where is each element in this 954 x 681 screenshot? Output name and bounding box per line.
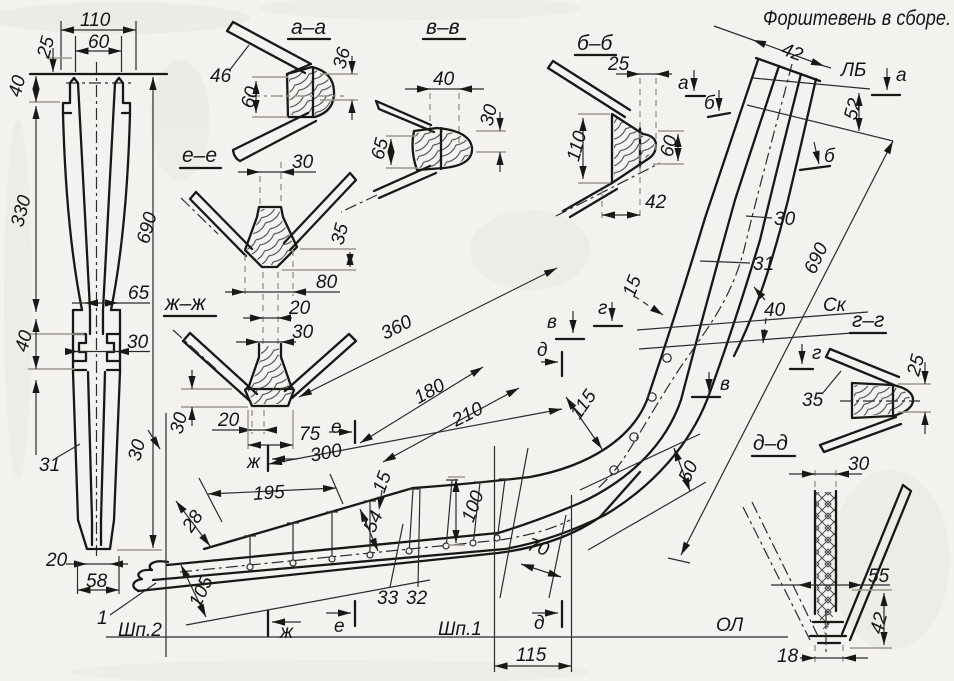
upper plank v-v bbox=[376, 101, 434, 132]
front view dimensions bbox=[5, 10, 163, 641]
svg-text:а–а: а–а bbox=[291, 16, 326, 39]
section g-g bbox=[790, 309, 931, 452]
svg-text:30: 30 bbox=[166, 410, 192, 436]
frame 2 bbox=[287, 523, 299, 566]
top deck line bbox=[30, 73, 167, 75]
dim 60 b-b bbox=[653, 131, 684, 164]
dim 30 joint bbox=[66, 351, 150, 353]
svg-text:690: 690 bbox=[133, 210, 162, 246]
svg-text:30: 30 bbox=[774, 209, 796, 230]
dim 360 bbox=[299, 268, 557, 397]
upper plank g-g bbox=[826, 349, 899, 385]
right plank e-e bbox=[284, 173, 356, 250]
lower plank v-v bbox=[374, 166, 436, 198]
dim 65 bbox=[72, 302, 150, 304]
svg-text:115: 115 bbox=[566, 386, 601, 423]
core a-a bbox=[287, 67, 334, 117]
svg-text:30: 30 bbox=[292, 322, 314, 343]
lower edge planks bbox=[563, 183, 617, 217]
right prong bbox=[111, 78, 130, 310]
svg-text:42: 42 bbox=[778, 39, 805, 66]
plank b-b bbox=[548, 61, 630, 117]
upper plank a-a bbox=[227, 22, 311, 74]
svg-text:18: 18 bbox=[777, 646, 799, 667]
svg-text:д–д: д–д bbox=[753, 432, 788, 455]
LB waterline bbox=[753, 78, 870, 89]
svg-text:195: 195 bbox=[252, 482, 286, 505]
svg-text:ж–ж: ж–ж bbox=[164, 292, 207, 315]
frame 5 bbox=[406, 489, 419, 554]
svg-text:20: 20 bbox=[45, 550, 68, 571]
dim 300 bbox=[269, 409, 562, 464]
dim 30 left bbox=[181, 389, 248, 407]
svg-text:105: 105 bbox=[185, 573, 218, 611]
svg-text:в–в: в–в bbox=[426, 16, 460, 39]
stem line L1 inner/frames-top bbox=[204, 60, 758, 549]
frame 6 bbox=[443, 480, 458, 549]
dim 115 bottom bbox=[495, 665, 572, 667]
frame 3 bbox=[326, 512, 338, 562]
dim 18 bbox=[815, 645, 843, 662]
svg-text:110: 110 bbox=[80, 10, 111, 31]
dim 30 v-v bbox=[476, 131, 506, 152]
dim 42 top bbox=[714, 26, 831, 68]
ext below bbox=[35, 380, 37, 455]
dim 80 bbox=[245, 250, 293, 296]
svg-text:35: 35 bbox=[327, 221, 353, 247]
lower plank a-a bbox=[233, 113, 316, 161]
front view stem post bbox=[30, 62, 167, 556]
core g-g bbox=[852, 383, 913, 418]
dim 690 slanted bbox=[681, 141, 893, 555]
bolt circles bbox=[610, 466, 618, 474]
svg-text:Шп.2: Шп.2 bbox=[118, 620, 162, 641]
svg-text:20: 20 bbox=[217, 410, 240, 431]
svg-text:65: 65 bbox=[367, 136, 393, 162]
svg-text:е: е bbox=[331, 417, 342, 438]
svg-text:690: 690 bbox=[800, 239, 833, 277]
lower post bbox=[73, 372, 120, 549]
centerline bbox=[96, 62, 98, 556]
dim 25 b-b bbox=[640, 78, 656, 219]
svg-text:80: 80 bbox=[316, 272, 338, 293]
svg-text:15: 15 bbox=[369, 468, 396, 495]
dim 110 bbox=[61, 21, 136, 70]
svg-text:Форштевень в сборе.: Форштевень в сборе. bbox=[763, 7, 951, 30]
frame 1 bbox=[244, 536, 256, 570]
second vertical bbox=[571, 495, 573, 672]
left plank e-e bbox=[190, 192, 252, 256]
dim 60 bbox=[76, 36, 122, 72]
main side view: stem assembly bbox=[133, 58, 820, 591]
left plank dashdot bbox=[743, 502, 818, 640]
line under LB bbox=[747, 105, 893, 141]
svg-text:40: 40 bbox=[5, 73, 31, 99]
svg-text:52: 52 bbox=[840, 96, 866, 122]
svg-text:б–б: б–б bbox=[577, 32, 613, 55]
dim 30 left2 bbox=[148, 430, 160, 449]
centerline g-g bbox=[840, 400, 920, 402]
svg-text:31: 31 bbox=[753, 254, 774, 275]
frame 7 bbox=[470, 482, 486, 546]
dim 58 bbox=[78, 556, 120, 594]
bottom tip bbox=[810, 622, 846, 643]
core e-e bbox=[245, 207, 297, 267]
svg-text:ж: ж bbox=[246, 452, 261, 473]
svg-text:б: б bbox=[824, 146, 836, 167]
svg-text:д: д bbox=[534, 613, 545, 634]
top cut bbox=[756, 58, 820, 81]
core v-v bbox=[413, 128, 472, 170]
keel outer bottom bbox=[138, 472, 640, 591]
svg-text:а: а bbox=[678, 73, 689, 94]
dim 100 bbox=[448, 477, 465, 545]
dim 40 top bbox=[29, 101, 60, 103]
dim 54 bbox=[360, 509, 378, 551]
dim 110 b-b bbox=[578, 114, 610, 183]
svg-text:30: 30 bbox=[476, 102, 502, 128]
svg-text:75: 75 bbox=[299, 424, 321, 445]
dim 195 bbox=[208, 488, 336, 494]
stem line L3 keel-plank-mid bbox=[153, 74, 801, 580]
svg-text:Ск: Ск bbox=[823, 295, 847, 316]
dim 60 a-a bbox=[252, 77, 288, 117]
dim 65 v-v bbox=[386, 136, 418, 168]
joint hooks bbox=[74, 334, 86, 370]
svg-text:60: 60 bbox=[237, 84, 263, 110]
dim 36 bbox=[320, 74, 358, 100]
section v-v bbox=[341, 16, 506, 212]
svg-text:30: 30 bbox=[292, 152, 314, 173]
dim 42 b-b bbox=[601, 190, 603, 219]
keel centerline bbox=[180, 520, 570, 572]
svg-text:г–г: г–г bbox=[852, 309, 884, 332]
trace pair 50 bbox=[580, 434, 706, 550]
stem line L2 keel-plank-top bbox=[167, 66, 779, 565]
svg-text:30: 30 bbox=[127, 332, 149, 353]
right plank bbox=[842, 485, 911, 640]
dim 42 d-d bbox=[850, 590, 892, 648]
svg-text:е–е: е–е bbox=[182, 144, 217, 167]
dim 25 g-g bbox=[898, 384, 931, 412]
svg-text:ж: ж bbox=[279, 622, 294, 643]
svg-text:40: 40 bbox=[433, 69, 455, 90]
svg-text:б: б bbox=[704, 93, 716, 114]
dim 30 e-e bbox=[260, 162, 281, 205]
svg-text:е: е bbox=[334, 616, 345, 637]
dim 20 top bbox=[263, 272, 278, 344]
svg-text:60: 60 bbox=[88, 32, 110, 53]
dim 20 bottom bbox=[66, 563, 128, 565]
svg-text:20: 20 bbox=[288, 298, 311, 319]
scarf joint shoulders bbox=[73, 310, 120, 372]
d-d trace pair 70 bbox=[500, 448, 566, 598]
svg-text:30: 30 bbox=[848, 454, 870, 475]
svg-text:в: в bbox=[720, 374, 730, 395]
dim 28 bbox=[176, 501, 210, 546]
left prong bbox=[63, 78, 82, 310]
svg-text:г: г bbox=[812, 343, 821, 364]
dim 40 lower bbox=[28, 334, 84, 369]
svg-text:35: 35 bbox=[802, 390, 824, 411]
svg-text:115: 115 bbox=[516, 645, 547, 666]
svg-text:а: а bbox=[896, 65, 907, 86]
lower plank g-g bbox=[820, 417, 901, 452]
svg-text:40: 40 bbox=[764, 300, 786, 321]
dim 690 front bbox=[117, 549, 162, 551]
dim 330 bbox=[35, 106, 37, 312]
dim 75 bbox=[248, 410, 293, 449]
left plank zh bbox=[183, 333, 257, 401]
core b-b bbox=[612, 114, 656, 183]
baseline OL bbox=[106, 636, 788, 638]
svg-text:28: 28 bbox=[178, 506, 208, 537]
svg-text:46: 46 bbox=[210, 66, 232, 87]
svg-text:54: 54 bbox=[360, 508, 388, 536]
section a-a bbox=[210, 16, 358, 161]
svg-text:30: 30 bbox=[124, 437, 150, 463]
section zh-zh bbox=[124, 272, 356, 473]
dim 52 bbox=[858, 93, 860, 131]
main view dimensions bbox=[106, 26, 907, 672]
svg-text:100: 100 bbox=[458, 488, 489, 525]
svg-text:110: 110 bbox=[563, 128, 591, 163]
svg-text:г: г bbox=[598, 298, 607, 319]
svg-text:58: 58 bbox=[86, 571, 108, 592]
svg-text:180: 180 bbox=[411, 375, 449, 409]
keel bar d-d bbox=[815, 491, 836, 614]
svg-text:д: д bbox=[537, 340, 548, 361]
svg-text:ОЛ: ОЛ bbox=[716, 615, 744, 636]
dim 180 bbox=[360, 367, 483, 443]
section b-b bbox=[548, 32, 730, 219]
dim 105 bbox=[181, 565, 206, 617]
section e-e bbox=[180, 144, 356, 296]
dim 55 bbox=[771, 584, 890, 586]
svg-text:1: 1 bbox=[97, 608, 108, 629]
svg-text:ЛБ: ЛБ bbox=[839, 60, 866, 81]
svg-text:25: 25 bbox=[33, 34, 59, 61]
stem bolt centerline bbox=[596, 64, 792, 490]
frame 8 bbox=[494, 479, 511, 541]
svg-text:55: 55 bbox=[868, 566, 890, 587]
right plank zh bbox=[285, 334, 356, 398]
svg-text:в: в bbox=[547, 312, 557, 333]
Sk lines bbox=[637, 312, 868, 349]
svg-text:40: 40 bbox=[11, 328, 37, 354]
dim 35 bbox=[282, 249, 356, 270]
frame 4 bbox=[364, 501, 376, 558]
section d-d bbox=[743, 432, 911, 667]
core zh-zh bbox=[245, 344, 294, 406]
svg-text:32: 32 bbox=[406, 588, 428, 609]
station Shp1 bbox=[494, 446, 496, 672]
dim 115 slanted bbox=[566, 397, 602, 449]
dim 40 v-v bbox=[430, 93, 459, 143]
svg-text:65: 65 bbox=[128, 283, 150, 304]
svg-text:15: 15 bbox=[619, 272, 646, 299]
svg-text:31: 31 bbox=[39, 455, 60, 476]
dim 20 bottom bbox=[252, 410, 264, 434]
dim 30 d-d bbox=[815, 470, 836, 492]
dim 30 bbox=[259, 346, 281, 360]
svg-text:33: 33 bbox=[377, 588, 399, 609]
dim 210 bbox=[383, 388, 519, 462]
dim 25 bbox=[46, 57, 72, 59]
svg-text:25: 25 bbox=[607, 54, 630, 75]
station Shp2 bbox=[165, 413, 167, 657]
keel break squiggle bbox=[133, 561, 168, 591]
svg-text:360: 360 bbox=[378, 311, 416, 344]
svg-text:42: 42 bbox=[645, 192, 667, 213]
stem line L4 outer bbox=[734, 79, 816, 356]
